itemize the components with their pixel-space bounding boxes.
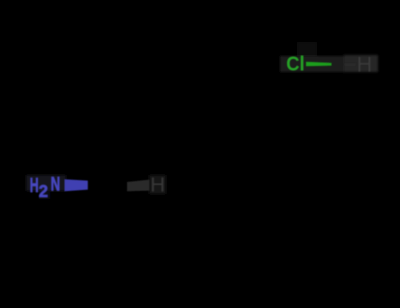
atom label H2N (amine)	[30, 173, 60, 201]
wedge bond N-C (blue half, N side)	[65, 179, 88, 191]
jpeg halo blocks around HCl	[280, 42, 378, 72]
bond Cl-H (green half, Cl side)	[306, 62, 332, 67]
jpeg halo blocks around amine group	[26, 175, 166, 199]
svg-text:H: H	[30, 174, 39, 197]
svg-text:Cl: Cl	[286, 54, 304, 76]
wedge bond C-H (gray half, H side)	[127, 180, 150, 192]
svg-text:H: H	[150, 173, 165, 196]
svg-text:N: N	[51, 173, 61, 195]
svg-text:H: H	[357, 52, 373, 76]
bond Cl-H (gray half, H side)	[345, 63, 357, 66]
svg-text:2: 2	[39, 182, 48, 201]
